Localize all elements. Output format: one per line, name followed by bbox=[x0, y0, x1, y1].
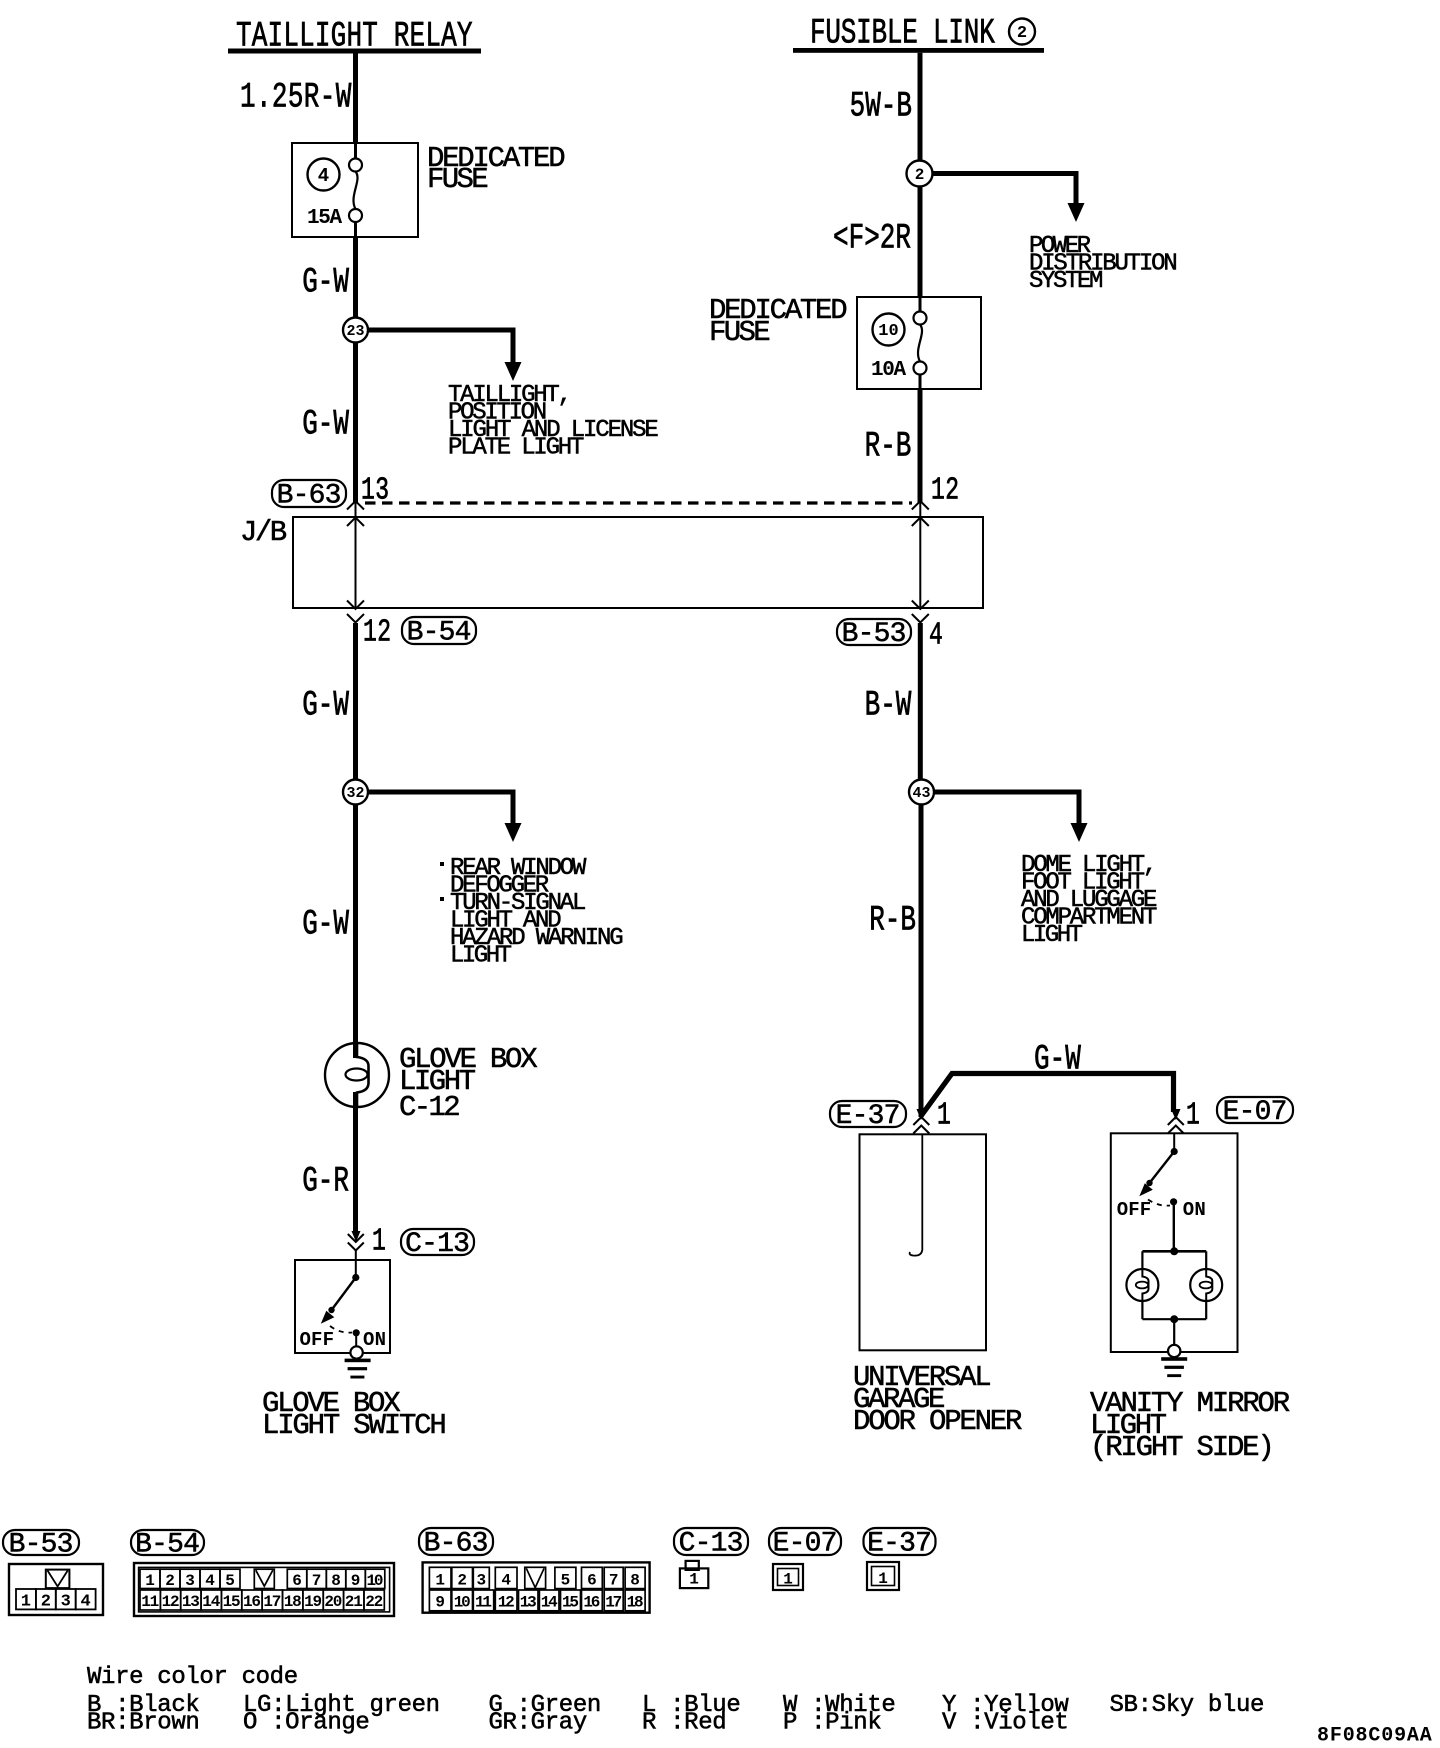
svg-text:20: 20 bbox=[324, 1593, 342, 1611]
vanity switch lever bbox=[1150, 1152, 1175, 1184]
svg-text:1.25R-W: 1.25R-W bbox=[240, 78, 352, 118]
wire fuse to node 23, G-W bbox=[353, 237, 358, 318]
svg-text:FUSE: FUSE bbox=[427, 163, 489, 196]
wire into vanity switch bbox=[1173, 1134, 1175, 1152]
svg-text:4: 4 bbox=[501, 1571, 511, 1589]
wire fusible link to node 2, 5W-B bbox=[918, 53, 923, 161]
svg-text:(RIGHT SIDE): (RIGHT SIDE) bbox=[1090, 1431, 1275, 1464]
svg-text:6: 6 bbox=[587, 1571, 597, 1589]
wire ON to lamp bus bbox=[1173, 1202, 1175, 1252]
wire label <F>2R bbox=[833, 219, 911, 259]
svg-text:J/B: J/B bbox=[240, 516, 287, 549]
glove box light switch box bbox=[295, 1260, 390, 1353]
svg-text:R :Red: R :Red bbox=[642, 1709, 726, 1736]
svg-text:E-37: E-37 bbox=[867, 1529, 932, 1560]
svg-text:4: 4 bbox=[929, 619, 943, 654]
vanity ground symbol bbox=[1161, 1357, 1187, 1361]
fusible link header underline bbox=[793, 48, 1044, 53]
svg-text:13: 13 bbox=[182, 1593, 200, 1611]
wire J/B to node 43, B-W bbox=[918, 623, 923, 780]
connector badge E-37 (pinout) bbox=[864, 1528, 936, 1555]
svg-text:15A: 15A bbox=[307, 207, 342, 230]
wire label G-W bbox=[302, 405, 349, 445]
wire fuse to J/B, R-B bbox=[918, 389, 923, 503]
fuse number circle 10 bbox=[873, 314, 905, 346]
pin number 1 bbox=[372, 1225, 386, 1260]
vanity bulb right bbox=[1190, 1269, 1222, 1301]
pin number 1 (E-37) bbox=[937, 1099, 951, 1134]
svg-text:LIGHT: LIGHT bbox=[1021, 922, 1083, 949]
svg-text:E-07: E-07 bbox=[1223, 1097, 1288, 1128]
svg-text:12: 12 bbox=[363, 616, 391, 651]
branch wire to vanity mirror light, G-W bbox=[921, 1074, 1174, 1117]
ground terminal circle bbox=[350, 1346, 362, 1358]
svg-text:4: 4 bbox=[80, 1593, 90, 1612]
svg-text:11: 11 bbox=[475, 1594, 492, 1612]
svg-text:G-W: G-W bbox=[302, 686, 349, 726]
svg-text:DOOR OPENER: DOOR OPENER bbox=[853, 1405, 1022, 1438]
svg-text:B-54: B-54 bbox=[407, 618, 472, 649]
svg-text:OFF: OFF bbox=[300, 1329, 335, 1351]
svg-text:6: 6 bbox=[292, 1572, 302, 1590]
svg-text:7: 7 bbox=[609, 1571, 619, 1589]
wire label 5W-B bbox=[850, 87, 912, 127]
wire label G-W bbox=[1034, 1040, 1081, 1080]
J/B dashed bus line bbox=[365, 501, 912, 504]
bottom bus junction dot bbox=[1170, 1315, 1178, 1323]
svg-text:O :Orange: O :Orange bbox=[243, 1709, 369, 1736]
svg-text:14: 14 bbox=[202, 1593, 220, 1611]
connector E-07 pinout symbol bbox=[773, 1564, 803, 1590]
svg-text:1: 1 bbox=[878, 1570, 888, 1588]
svg-text:8: 8 bbox=[630, 1571, 640, 1589]
connector B-54 pinout bbox=[134, 1563, 394, 1616]
svg-text:E-07: E-07 bbox=[773, 1529, 838, 1560]
svg-text:21: 21 bbox=[345, 1593, 363, 1611]
svg-text:C-13: C-13 bbox=[679, 1529, 744, 1560]
svg-text:8: 8 bbox=[331, 1572, 341, 1590]
ground symbol bbox=[345, 1359, 371, 1363]
pin number 12 bbox=[363, 616, 391, 651]
svg-text:2: 2 bbox=[457, 1571, 467, 1589]
wire J/B to node 32, G-W bbox=[353, 623, 358, 780]
vanity mirror light box bbox=[1111, 1133, 1238, 1352]
svg-text:10: 10 bbox=[454, 1594, 471, 1612]
connector badge B-53 (pinout) bbox=[3, 1530, 79, 1555]
svg-text:1: 1 bbox=[937, 1099, 951, 1134]
svg-text:23: 23 bbox=[346, 323, 364, 340]
svg-text:17: 17 bbox=[263, 1593, 281, 1611]
svg-text:2: 2 bbox=[165, 1572, 175, 1590]
svg-text:13: 13 bbox=[520, 1594, 537, 1612]
branch wire to taillight (node 23 right arm) bbox=[362, 328, 516, 333]
svg-text:3: 3 bbox=[185, 1572, 195, 1590]
connector chevron at J/B 12 bbox=[912, 501, 929, 510]
connector E-07 chevrons bbox=[1168, 1117, 1184, 1125]
svg-text:ON: ON bbox=[1183, 1199, 1206, 1221]
svg-text:G-W: G-W bbox=[302, 405, 349, 445]
svg-text:19: 19 bbox=[304, 1593, 322, 1611]
connector E-37 pinout symbol bbox=[867, 1562, 899, 1590]
svg-text:12: 12 bbox=[498, 1594, 515, 1612]
svg-text:1: 1 bbox=[145, 1572, 155, 1590]
connector badge B-63 bbox=[272, 480, 346, 507]
wire label B-W bbox=[865, 686, 912, 726]
dedicated fuse F4 box bbox=[292, 143, 418, 237]
node 23 bbox=[343, 318, 368, 343]
svg-text:5: 5 bbox=[225, 1572, 235, 1590]
svg-text:B-53: B-53 bbox=[9, 1530, 74, 1561]
connector badge C-13 bbox=[401, 1229, 474, 1255]
antenna wire inside garage door opener bbox=[910, 1134, 923, 1256]
wire through J/B (right) bbox=[919, 503, 921, 608]
svg-text:Wire color code: Wire color code bbox=[87, 1664, 298, 1691]
switch ON contact dot bbox=[353, 1329, 360, 1336]
wire label G-W bbox=[302, 686, 349, 726]
svg-text:17: 17 bbox=[605, 1594, 622, 1612]
svg-text:<F>2R: <F>2R bbox=[833, 219, 911, 259]
wire taillight relay to dedicated fuse, 1.25R-W bbox=[353, 54, 358, 144]
node FUSIBLE LINK 2 header bbox=[810, 14, 995, 54]
svg-text:11: 11 bbox=[141, 1593, 159, 1611]
svg-text:4: 4 bbox=[318, 165, 329, 187]
svg-text:V :Violet: V :Violet bbox=[942, 1709, 1068, 1736]
connector chevron at B-53 4 bbox=[912, 614, 929, 623]
svg-text:G-W: G-W bbox=[1034, 1040, 1081, 1080]
node 32 bbox=[343, 780, 368, 805]
lamp bottom bus bbox=[1141, 1301, 1143, 1319]
wire into glove box light switch bbox=[355, 1251, 357, 1278]
wire through J/B (left) bbox=[355, 503, 357, 608]
vanity ground terminal circle bbox=[1168, 1345, 1180, 1357]
svg-text:9: 9 bbox=[351, 1572, 361, 1590]
connector badge B-54 bbox=[402, 617, 476, 644]
wire label G-R bbox=[302, 1162, 349, 1202]
svg-text:C-12: C-12 bbox=[399, 1091, 461, 1124]
fuse element and terminals bbox=[354, 143, 357, 159]
svg-text:LIGHT: LIGHT bbox=[450, 942, 512, 969]
glove box light bulb C-12 bbox=[325, 1043, 389, 1107]
vanity ON contact dot bbox=[1170, 1198, 1177, 1205]
svg-text:G-R: G-R bbox=[302, 1162, 349, 1202]
svg-text:ON: ON bbox=[363, 1329, 386, 1351]
svg-text:SB:Sky blue: SB:Sky blue bbox=[1110, 1692, 1265, 1719]
svg-text:2: 2 bbox=[41, 1593, 51, 1612]
wire tip into E-37 bbox=[917, 1109, 926, 1120]
connector badge C-13 (pinout) bbox=[674, 1528, 748, 1555]
wire label G-W bbox=[302, 263, 349, 303]
svg-text:E-37: E-37 bbox=[836, 1101, 901, 1132]
svg-text:9: 9 bbox=[435, 1594, 445, 1612]
connector B-63 pinout bbox=[423, 1562, 650, 1612]
svg-text:PLATE LIGHT: PLATE LIGHT bbox=[448, 434, 584, 461]
node 2 bbox=[907, 161, 933, 187]
svg-text:1: 1 bbox=[1186, 1099, 1200, 1134]
wire to vanity ground bbox=[1173, 1319, 1175, 1345]
wire color code legend bbox=[87, 1664, 1264, 1737]
svg-text:2: 2 bbox=[915, 166, 925, 184]
svg-text:G-W: G-W bbox=[302, 263, 349, 303]
connector E-37 chevrons bbox=[913, 1117, 929, 1125]
svg-text:10: 10 bbox=[367, 1572, 384, 1590]
connector chevron at B-63 13 bbox=[347, 501, 364, 510]
svg-text:22: 22 bbox=[365, 1593, 383, 1611]
wire node 2 to dedicated fuse, <F>2R bbox=[918, 187, 923, 298]
branch wire to power distribution system (node 2 right arm) bbox=[926, 171, 1079, 176]
vanity switch common dot bbox=[1171, 1148, 1178, 1155]
svg-text:7: 7 bbox=[312, 1572, 322, 1590]
taillight relay header underline bbox=[228, 49, 481, 54]
universal garage door opener box bbox=[860, 1134, 987, 1350]
svg-text:8F08C09AA: 8F08C09AA bbox=[1317, 1725, 1432, 1748]
lamp top bus bbox=[1142, 1250, 1206, 1253]
svg-text:OFF: OFF bbox=[1117, 1199, 1152, 1221]
svg-text:12: 12 bbox=[162, 1593, 180, 1611]
svg-text:15: 15 bbox=[223, 1593, 241, 1611]
connector B-53 pinout bbox=[9, 1564, 103, 1615]
svg-text:1: 1 bbox=[689, 1571, 699, 1589]
wire label G-W bbox=[302, 905, 349, 945]
connector badge B-63 (pinout) bbox=[419, 1528, 493, 1555]
svg-text:32: 32 bbox=[346, 785, 364, 802]
wire ON contact to ground bbox=[355, 1333, 357, 1347]
lamp bus junction dot bbox=[1170, 1247, 1178, 1255]
fuse element and terminals bbox=[919, 297, 922, 312]
svg-text:BR:Brown: BR:Brown bbox=[87, 1709, 199, 1736]
switch lever bbox=[332, 1278, 356, 1311]
fuse number circle 4 bbox=[308, 159, 340, 191]
branch wire to rear window defogger etc (node 32 right arm) bbox=[362, 790, 516, 795]
svg-text:3: 3 bbox=[61, 1593, 71, 1612]
svg-text:R-B: R-B bbox=[869, 901, 916, 941]
svg-text:4: 4 bbox=[205, 1572, 215, 1590]
svg-text:16: 16 bbox=[583, 1594, 600, 1612]
svg-text:5: 5 bbox=[561, 1571, 571, 1589]
destination label: rear window defogger / turn-signal light and hazard warning light bbox=[440, 862, 444, 866]
svg-text:B-54: B-54 bbox=[135, 1530, 200, 1561]
vanity switch dashed travel arc bbox=[1148, 1200, 1170, 1206]
svg-text:1: 1 bbox=[783, 1571, 793, 1589]
circled 2 of header bbox=[1009, 19, 1035, 45]
wire glove box light to switch, G-R bbox=[353, 1107, 358, 1233]
svg-text:14: 14 bbox=[541, 1594, 558, 1612]
svg-text:R-B: R-B bbox=[865, 427, 912, 467]
connector badge B-54 (pinout) bbox=[131, 1530, 204, 1555]
branch wire to dome light etc (node 43 right arm) bbox=[928, 790, 1082, 795]
connector badge E-37 (diagram) bbox=[830, 1101, 906, 1127]
svg-text:18: 18 bbox=[284, 1593, 302, 1611]
svg-text:GR:Gray: GR:Gray bbox=[489, 1709, 587, 1736]
vanity bulb left bbox=[1126, 1269, 1158, 1301]
svg-text:B-W: B-W bbox=[865, 686, 912, 726]
svg-text:G-W: G-W bbox=[302, 905, 349, 945]
svg-text:1: 1 bbox=[435, 1571, 445, 1589]
switch common contact dot bbox=[352, 1274, 359, 1281]
connector badge E-07 (diagram) bbox=[1217, 1097, 1293, 1123]
connector badge B-53 (diagram) bbox=[837, 619, 911, 645]
svg-text:B-53: B-53 bbox=[842, 619, 907, 650]
node TAILLIGHT RELAY header bbox=[236, 17, 473, 57]
svg-text:C-13: C-13 bbox=[405, 1229, 470, 1260]
svg-text:2: 2 bbox=[1017, 24, 1027, 43]
svg-text:P :Pink: P :Pink bbox=[783, 1709, 881, 1736]
svg-text:43: 43 bbox=[912, 785, 930, 802]
connector C-13 chevrons bbox=[352, 1231, 361, 1242]
svg-text:1: 1 bbox=[21, 1593, 31, 1612]
connector C-13 pinout symbol bbox=[686, 1561, 699, 1570]
wire label R-B bbox=[869, 901, 916, 941]
svg-text:5W-B: 5W-B bbox=[850, 87, 912, 127]
wire node 43 down to E-37, R-B bbox=[919, 805, 924, 1118]
svg-text:1: 1 bbox=[372, 1225, 386, 1260]
svg-text:LIGHT SWITCH: LIGHT SWITCH bbox=[262, 1409, 447, 1442]
svg-text:15: 15 bbox=[562, 1594, 579, 1612]
J/B junction block box bbox=[293, 517, 983, 608]
node 43 bbox=[909, 780, 934, 805]
svg-text:SYSTEM: SYSTEM bbox=[1029, 268, 1103, 295]
pin number 4 bbox=[929, 619, 943, 654]
svg-text:16: 16 bbox=[243, 1593, 261, 1611]
pin number 13 bbox=[361, 474, 389, 509]
wire node 32 to glove box light, G-W bbox=[353, 805, 358, 1044]
svg-text:FUSE: FUSE bbox=[709, 316, 771, 349]
wire node 23 to J/B, G-W bbox=[353, 343, 358, 504]
pin number 12 (B-63 side right) bbox=[931, 474, 959, 509]
svg-text:12: 12 bbox=[931, 474, 959, 509]
svg-text:B-63: B-63 bbox=[277, 481, 342, 512]
wire label R-B bbox=[865, 427, 912, 467]
wire label 1.25R-W bbox=[240, 78, 352, 118]
svg-text:B-63: B-63 bbox=[424, 1529, 489, 1560]
svg-text:3: 3 bbox=[476, 1571, 486, 1589]
pin number 1 (E-07) bbox=[1186, 1099, 1200, 1134]
svg-text:10: 10 bbox=[878, 322, 898, 341]
connector chevron at B-54 12 bbox=[347, 614, 364, 623]
svg-text:FUSIBLE LINK: FUSIBLE LINK bbox=[810, 14, 995, 54]
svg-text:18: 18 bbox=[627, 1594, 644, 1612]
svg-text:10A: 10A bbox=[871, 359, 906, 382]
switch dashed travel arc bbox=[330, 1326, 352, 1333]
connector badge E-07 (pinout) bbox=[769, 1528, 841, 1555]
dedicated fuse F10 box bbox=[857, 297, 981, 389]
